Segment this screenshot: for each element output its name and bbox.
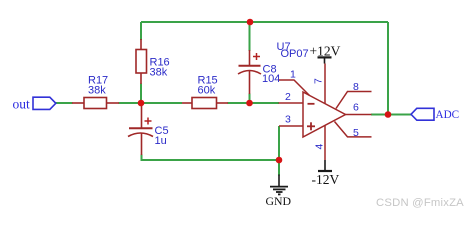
svg-text:5: 5 [353,127,359,139]
svg-text:2: 2 [285,91,291,103]
svg-text:1u: 1u [155,135,167,147]
svg-text:6: 6 [353,102,359,114]
op-amp U7 pin 3 (non-inverting) [279,114,303,126]
capacitor C5 1u (polarized) [128,104,169,155]
wire ground node down to GND [278,160,280,176]
resistor R17 38k [72,75,119,109]
port ADC [411,108,459,121]
wire R15 to op-amp pin 2 [228,102,280,104]
svg-text:60k: 60k [198,84,216,96]
ground GND [266,175,292,208]
op-amp U7 pin 4 (V-) [313,126,325,161]
svg-text:OP07: OP07 [281,48,309,60]
op-amp U7 pin 1 [279,69,310,96]
svg-text:3: 3 [285,114,291,126]
capacitor C8 104 (polarized) [238,50,280,94]
svg-text:1: 1 [290,69,296,81]
svg-text:7: 7 [313,78,325,84]
svg-text:CSDN @FmixZA: CSDN @FmixZA [376,197,464,209]
wire R17 to R15 [119,102,183,104]
wire R16 bottom stub [140,84,142,104]
junction node pin3 / GND [276,157,283,164]
power -12V [312,160,340,187]
svg-text:out: out [13,96,31,111]
wire output to ADC port [371,114,411,116]
svg-text:4: 4 [313,144,325,150]
wire right vertical drop [387,22,389,115]
wire out port to R17 [56,102,73,104]
op-amp U7 pin 8 [336,81,372,109]
svg-text:104: 104 [262,73,280,85]
wire ground node up to op-amp pin 3 [278,126,280,160]
svg-text:+12V: +12V [310,43,341,58]
wire C8 top stub [249,22,251,51]
junction node output [385,111,392,118]
junction node C8 / main rail [246,100,253,107]
op-amp U7 pin 2 (inverting) [279,91,304,103]
svg-text:38k: 38k [88,84,106,96]
power +12V [310,43,341,63]
junction node R16/R17/R15/C5 [138,100,145,107]
wire R16 top stub [140,22,142,40]
resistor R15 60k [182,75,228,109]
wire top rail [141,21,388,23]
op-amp U7 pin 6 (output) [346,102,372,115]
svg-text:8: 8 [353,81,359,93]
junction node top rail / C8 [247,19,254,26]
op-amp U7 pin 7 (V+) [313,64,325,104]
resistor R16 38k [136,39,170,84]
svg-text:38k: 38k [150,66,168,78]
svg-text:ADC: ADC [436,109,460,121]
svg-text:-12V: -12V [312,172,340,187]
op-amp U7 OP07 body [277,41,346,137]
wire C5 bottom to ground node [142,155,280,161]
op-amp U7 pin 5 [335,122,372,140]
svg-text:GND: GND [266,194,292,208]
port out [13,96,56,111]
wire C8 bottom stub [249,94,251,104]
